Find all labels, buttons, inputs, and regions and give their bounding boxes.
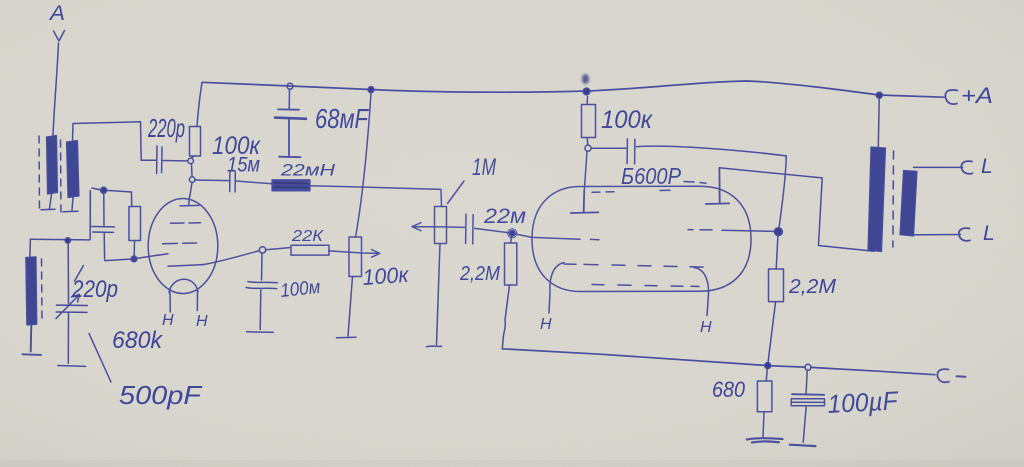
resistor 680k bottom lead <box>133 241 135 256</box>
resistor 100K-2 top lead <box>586 97 588 105</box>
capacitor grid bottom lead <box>103 233 105 260</box>
tube V2 bottom dash row B <box>592 285 699 287</box>
resistor 2,2M left bottom lead <box>502 285 509 349</box>
potentiometer 100K wiper arrow <box>329 250 380 258</box>
capacitor 100m plates <box>246 282 277 289</box>
capacitor 100uF top plate <box>792 393 824 396</box>
resistor 22K left lead <box>266 248 291 250</box>
label 220p var <box>71 276 118 303</box>
paper shading vignette <box>0 0 1 1</box>
coil T1 secondary lead and T-end <box>63 198 78 212</box>
capacitor 22m right lead <box>475 228 510 232</box>
label +A <box>961 83 993 108</box>
wire node to V2 left anode <box>584 152 587 191</box>
tube V2 right cathode arc and leg <box>694 268 709 316</box>
label H tube V2 left <box>540 316 552 333</box>
potentiometer 100K bottom lead and T-end <box>337 277 357 338</box>
terminal curl minus <box>937 369 949 382</box>
top rail +A <box>202 81 944 97</box>
label 68mF <box>315 103 369 134</box>
resistor 2,2M right top lead <box>776 236 778 269</box>
capacitor 68mF plates <box>275 109 306 118</box>
potentiometer 100K body <box>349 237 362 277</box>
label 2,2M right <box>788 276 836 298</box>
wire node X to node Y <box>191 164 194 177</box>
capacitor 15m leads <box>195 180 272 184</box>
varcap 220p bottom lead and T-end <box>58 313 86 367</box>
node 68mF rail circle <box>287 83 293 89</box>
capacitor 68mF top lead <box>288 90 290 110</box>
core dashed line left <box>38 136 41 213</box>
capacitor 100m top lead <box>261 253 264 280</box>
coil T1 secondary bar <box>67 141 80 198</box>
node grid2 dot <box>508 229 517 238</box>
potentiometer 1M bottom lead and T-end <box>427 244 442 347</box>
transformer primary bar <box>868 147 886 252</box>
tube V1 grid dashes row2 <box>163 242 197 245</box>
label 220p <box>147 113 185 143</box>
capacitor 100uF bottom lead <box>803 406 806 442</box>
tube V1 envelope <box>148 199 218 294</box>
tube V2 left anode stem and bar <box>571 191 599 213</box>
resistor 2,2M left top lead <box>510 236 513 243</box>
node rail transformer dot <box>876 92 882 98</box>
coil T1 primary bar <box>47 136 58 195</box>
grid node dot <box>101 187 107 193</box>
label 100K left <box>212 132 261 160</box>
label 680 <box>712 377 746 402</box>
wire tank to coil L2 <box>29 239 32 256</box>
label 500pF <box>119 380 203 410</box>
ink smudge above node <box>582 74 589 84</box>
label minus <box>957 375 966 377</box>
capacitor 5600P right lead <box>637 146 787 156</box>
label 22K <box>291 228 325 245</box>
wire V1 anode to node <box>203 251 259 265</box>
core dashed line middle <box>60 140 63 216</box>
tube V2 envelope <box>532 186 751 291</box>
dashes 5600P leader <box>684 182 706 184</box>
label 22mH <box>280 161 336 180</box>
grid2 dash inside <box>591 238 600 240</box>
transformer secondary bar <box>900 171 917 237</box>
node 100uF circle <box>805 364 811 370</box>
node tank dot <box>65 238 70 243</box>
resistor 2,2M right bottom lead <box>768 302 776 364</box>
node rail blob 1 <box>368 87 374 93</box>
resistor R1 bottom lead <box>192 156 195 158</box>
coil T1 primary lead and T-end <box>41 194 55 210</box>
wire feedback down to node <box>779 156 786 228</box>
wire tank top <box>30 238 89 241</box>
transformer primary top lead <box>877 98 880 147</box>
tube V1 heater legs <box>170 292 198 313</box>
wire secondary top to terminal <box>914 166 963 168</box>
antenna arrow <box>54 31 65 42</box>
node anode circle <box>259 247 265 253</box>
wire rail to 100K pot <box>356 93 372 237</box>
label 5600P <box>621 163 682 189</box>
wire antenna down <box>53 43 59 135</box>
label H tube V2 right <box>700 319 712 336</box>
resistor 100K-2 bottom lead <box>586 138 588 145</box>
tube V1 anode stem and bar <box>180 197 199 206</box>
resistor 100K R1 top lead <box>197 83 202 127</box>
potentiometer 1M body <box>435 207 447 244</box>
wire node left hook <box>92 188 101 190</box>
terminal curl L top <box>961 161 972 174</box>
ground 100uF <box>790 445 816 446</box>
node Y circle <box>189 177 195 183</box>
tube V2 right anode bar and stem <box>706 168 729 204</box>
varcap 220p arrow <box>56 295 80 319</box>
label 100K-2 <box>601 106 653 134</box>
label 1M <box>472 154 496 181</box>
resistor 680 top lead <box>766 369 767 382</box>
capacitor 220p leads <box>142 159 188 162</box>
resistor 100K-2 body <box>582 105 596 138</box>
node anode2 blob <box>774 228 782 236</box>
terminal curl L bottom <box>959 228 970 241</box>
wire node to 680k <box>107 190 132 206</box>
terminal curl +A <box>945 90 957 104</box>
label 100K pot <box>362 262 411 290</box>
wire 22mH to 1M pot <box>310 186 442 207</box>
label L top <box>981 155 993 178</box>
pointer 500pF <box>89 334 111 383</box>
capacitor 22m plates <box>466 214 474 244</box>
pointer 1M <box>448 181 465 204</box>
label 680k <box>112 327 164 354</box>
capacitor 5600P left lead <box>591 147 626 149</box>
transformer core dashes <box>892 151 895 247</box>
pointer 220p var <box>75 266 84 282</box>
capacitor 220p top plates <box>157 146 162 174</box>
wire grid2 to tube <box>515 234 580 239</box>
node X circle <box>188 158 194 164</box>
label 100uF <box>827 385 900 419</box>
wire right grid to node <box>722 230 776 231</box>
coil L2 bottom lead and T-end <box>23 325 42 355</box>
tube V2 bottom dash row A <box>564 264 703 267</box>
bottom rail wire <box>502 349 935 375</box>
label 2,2M left <box>459 263 500 285</box>
capacitor 100m bottom lead and T-end <box>247 290 274 332</box>
wire grid bus <box>105 254 168 261</box>
grid node dot 2 <box>131 256 137 262</box>
label 22m <box>483 205 526 228</box>
wire left column down <box>89 191 91 240</box>
label 15m <box>227 154 260 177</box>
capacitor 68mF bottom lead and T-end <box>279 120 301 158</box>
wire coil to 220p cap <box>73 122 142 161</box>
capacitor 100uF top lead <box>806 371 807 394</box>
capacitor grid plates <box>92 227 115 233</box>
capacitor grid vertical leads <box>90 192 104 226</box>
inductor 22mH body <box>272 180 310 191</box>
label 100m <box>279 277 321 302</box>
varcap 220p plates <box>56 305 87 312</box>
wire secondary bottom to terminal <box>907 234 961 236</box>
label L bottom <box>983 222 995 245</box>
tube V1 internal anode line <box>168 265 203 267</box>
tube V2 top dash line <box>592 190 670 192</box>
capacitor 22m left lead <box>447 226 466 228</box>
node rail blob 2 <box>583 88 590 95</box>
wire right anode to transformer <box>719 168 874 252</box>
resistor 680 bottom lead <box>763 412 764 437</box>
resistor 22K body <box>291 245 329 255</box>
coil L2 core dashes <box>41 259 44 321</box>
tube V1 grid dashes row1 <box>171 222 201 225</box>
antenna A label <box>48 2 65 25</box>
ground 680 scribble <box>747 438 783 442</box>
potentiometer 1M wiper arrow left <box>412 223 447 231</box>
node below 100K-2 circle <box>585 145 591 151</box>
capacitor 100uF body rect <box>791 399 824 406</box>
resistor 2,2M left body <box>505 243 517 285</box>
wire node Y to tube top <box>190 183 192 197</box>
coil L2 bar <box>26 257 37 325</box>
node 680 dot <box>765 363 771 369</box>
tube V2 right grid dashes <box>688 229 712 231</box>
label H H tube V1 <box>162 312 208 330</box>
tube V2 left cathode arc and leg <box>549 263 564 314</box>
resistor 100K R1 body <box>190 127 201 157</box>
tube V1 cathode dome <box>169 279 198 292</box>
capacitor 15m plates <box>230 172 236 193</box>
resistor 2,2M right body <box>769 269 784 302</box>
resistor 680k body <box>129 207 141 241</box>
resistor 680 body <box>757 381 772 412</box>
varcap 220p top lead <box>67 243 69 304</box>
capacitor 5600P plates <box>627 139 635 164</box>
